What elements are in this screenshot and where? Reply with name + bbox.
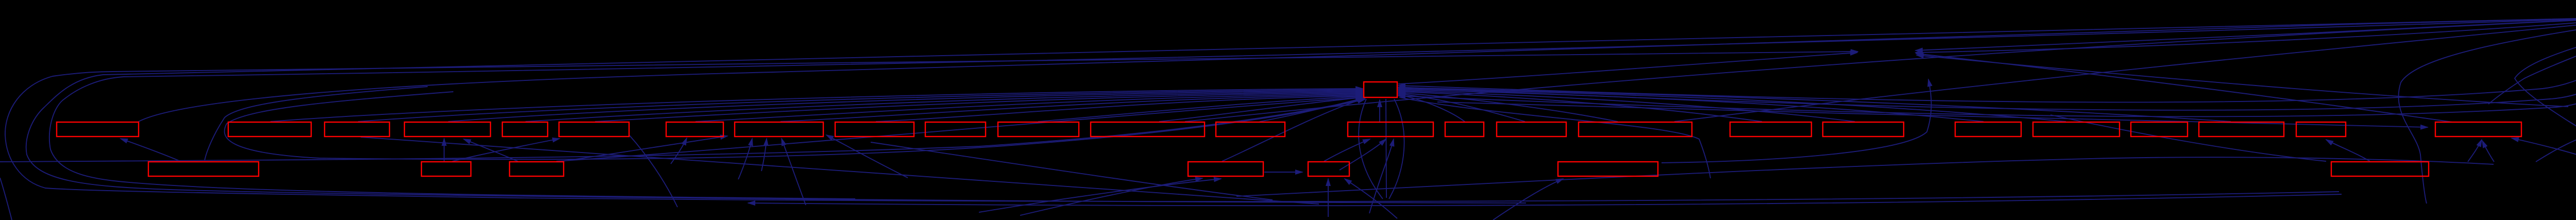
node B23: [2199, 122, 2284, 137]
wire below to B14 right: [1369, 139, 1394, 213]
node C4: [1188, 162, 1263, 176]
wire B17 to hub: [1398, 93, 1618, 122]
wire bottom diagonal D4: [1236, 157, 2494, 196]
node C2: [421, 162, 471, 176]
node B7: [666, 122, 723, 137]
wire root down S between B24 B25: [2398, 17, 2576, 204]
wire below to C5 bottom: [1328, 179, 1329, 217]
wire C3 to hub: [556, 97, 1363, 161]
wire B6 bottom down: [630, 136, 677, 207]
wire X cluster 1: [2536, 132, 2576, 162]
wire below to B8 bottom left: [738, 139, 752, 179]
node B13: [1216, 122, 1285, 137]
wire band down left of B2 outer: [205, 87, 428, 161]
wire right bundle 1 to hub: [1398, 18, 2576, 102]
node B1: [57, 122, 139, 137]
wire B12 to hub: [1159, 97, 1363, 122]
wire right bundle 2 to hub: [1398, 18, 2576, 110]
wire root down right of B25: [2515, 17, 2576, 162]
node B5: [502, 122, 548, 137]
wire C6 up to node near B19 gap: [1662, 79, 1931, 163]
wire C3 to B6: [464, 139, 518, 161]
node B11: [998, 122, 1079, 137]
wire C4 to C5: [1264, 172, 1302, 173]
wire B12 to root: [1185, 17, 2576, 122]
wire right bundle 3 to hub: [1398, 18, 2576, 116]
wire B7 to hub: [696, 94, 1363, 122]
wire below to B8 bottom mid: [761, 139, 767, 171]
wire B23 to hub: [1398, 88, 2231, 122]
wire B13 to hub: [1260, 98, 1364, 122]
wire B21 to hub: [1398, 89, 2066, 122]
wire B5 to hub: [526, 92, 1363, 122]
wire below to C4 bottom 1: [1020, 178, 1202, 215]
wire C1 to B1: [121, 139, 180, 161]
node B9: [835, 122, 914, 137]
node C6: [1558, 162, 1658, 176]
wire root to invisible node X lower: [1916, 18, 2576, 53]
wire B19 to hub: [1398, 91, 1855, 122]
wire B20 to hub: [1398, 90, 1984, 122]
wire C4 to hub: [1222, 98, 1365, 161]
wire B3 to hub: [358, 90, 1363, 122]
wire C5 to B14 mid: [1340, 139, 1386, 170]
wire B11 to hub: [1038, 96, 1363, 122]
wire to B8 right edge: [826, 135, 908, 178]
wire long diagonal to bottom right 2: [361, 137, 1319, 204]
node B18: [1730, 122, 1811, 137]
wire hub V vertical: [1386, 99, 1386, 198]
wire B1 to root: [138, 17, 2576, 122]
wire long diagonal to bottom right 1: [871, 142, 1273, 200]
wire C5 to B14 left: [1324, 139, 1370, 161]
node B20: [1955, 122, 2021, 137]
wire X cluster 2: [2512, 138, 2576, 162]
wire B2 to hub: [270, 89, 1363, 122]
wire B15 to hub: [1398, 95, 1465, 122]
node B25: [2435, 122, 2521, 137]
wire B18 to hub: [1398, 92, 1762, 122]
node B24: [2296, 122, 2346, 137]
wire hub V down right: [1389, 99, 1404, 199]
node C7: [2331, 162, 2429, 176]
node B14: [1348, 122, 1433, 137]
wire B14 to hub bottom: [1379, 100, 1380, 122]
wire far right to node X: [1917, 55, 2568, 107]
node C1: [148, 162, 259, 176]
wire B8 to hub: [781, 95, 1363, 122]
wire bundle drop to C7: [2050, 115, 2326, 161]
wire below to C6 bottom left: [1493, 179, 1563, 220]
node B4: [404, 122, 490, 137]
wire B25 to node X: [1916, 54, 2452, 122]
wire C3 to B7: [562, 136, 727, 161]
node B6: [559, 122, 629, 137]
wire below right to B8 bottom: [782, 139, 806, 205]
node B15: [1445, 122, 1484, 137]
wire hub V down left: [1359, 99, 1383, 199]
wire B4 to hub: [448, 91, 1363, 122]
wire hub to invisible node X: [1398, 53, 1857, 84]
node B12: [1091, 122, 1205, 137]
wire B6 to hub: [595, 93, 1363, 122]
wire stub to B7 bottom left: [671, 138, 687, 164]
wire bottom left corner exit: [0, 178, 12, 220]
node B10: [925, 122, 986, 137]
node C3: [510, 162, 564, 176]
wire B9 to hub: [876, 96, 1363, 122]
node B17: [1579, 122, 1692, 137]
wire below to B25 bottom: [2482, 141, 2494, 162]
wire C2 to B6: [452, 139, 560, 161]
node B22: [2131, 122, 2188, 137]
node B8: [735, 122, 823, 137]
wire C2 to B5: [444, 139, 445, 161]
wire C7 to B24: [2326, 140, 2370, 161]
wire left arc 1 bottom band top band to node X: [5, 52, 2339, 201]
wire flat line far left to hub: [0, 99, 1365, 162]
wire C7 to B25: [2468, 140, 2482, 162]
node B19: [1823, 122, 1904, 137]
node B21: [2033, 122, 2120, 137]
wire hub down right crossing row: [1399, 97, 1710, 178]
wire root fan into bundle: [2488, 17, 2576, 104]
node B16: [1497, 122, 1566, 137]
node B3: [325, 122, 389, 137]
hub node: [1364, 82, 1397, 97]
wire root to invisible node X upper: [1916, 17, 2576, 50]
wire B16 to hub: [1398, 94, 1525, 122]
wire long line into B25 left edge: [1437, 102, 2428, 127]
wire B17 to root: [1674, 17, 2576, 122]
wire below right to C5 bottom: [1345, 179, 1397, 218]
node B2: [228, 122, 311, 137]
wire below to C4 bottom 2: [979, 179, 1221, 212]
wire band down left of B2 inner: [225, 92, 1365, 159]
wire bottom twin line: [748, 194, 2342, 206]
node C5: [1308, 162, 1349, 176]
